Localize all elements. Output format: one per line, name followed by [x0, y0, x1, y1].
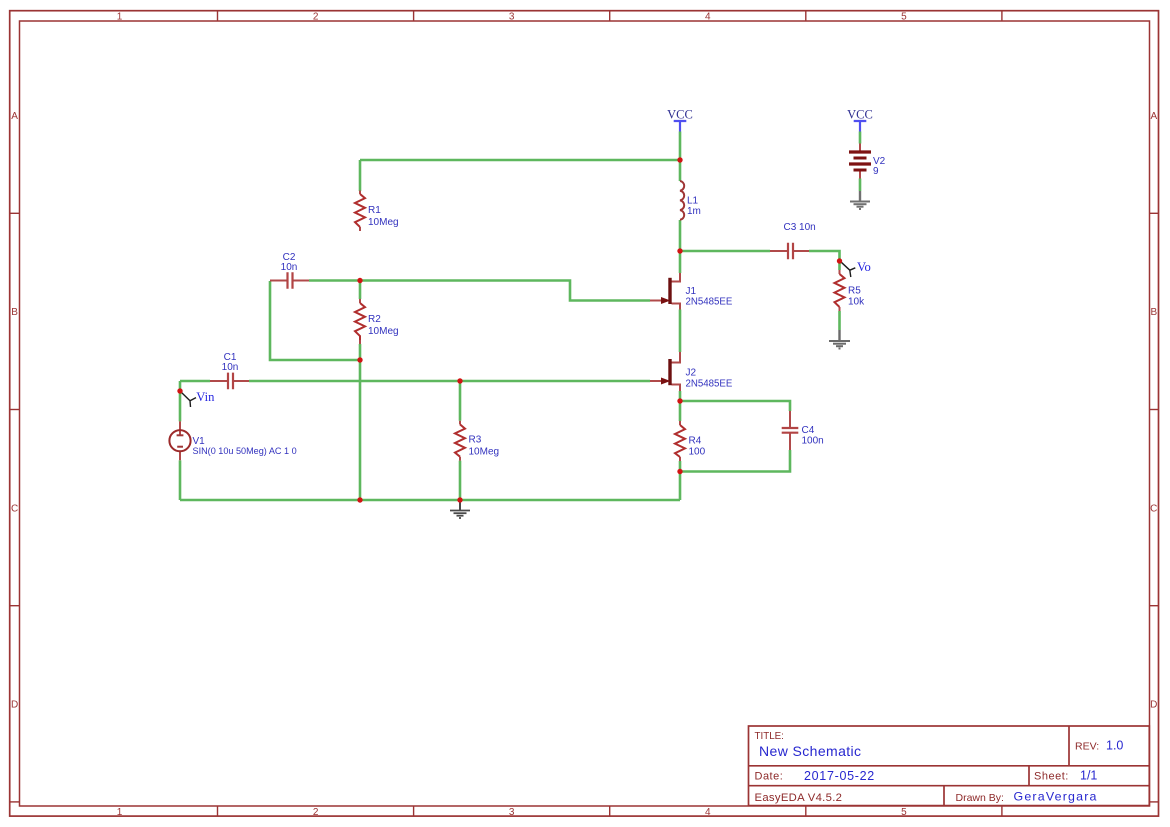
- svg-text:D: D: [11, 700, 18, 711]
- svg-text:R2: R2: [368, 314, 381, 325]
- svg-text:J2: J2: [686, 367, 697, 378]
- svg-text:10Meg: 10Meg: [368, 217, 399, 228]
- svg-text:D: D: [1150, 700, 1157, 711]
- svg-text:GeraVergara: GeraVergara: [1014, 790, 1098, 804]
- svg-text:10Meg: 10Meg: [368, 326, 399, 337]
- svg-text:1/1: 1/1: [1080, 769, 1097, 783]
- svg-text:C: C: [11, 503, 18, 514]
- svg-text:3: 3: [509, 807, 515, 818]
- svg-text:4: 4: [705, 12, 711, 23]
- svg-text:100n: 100n: [802, 436, 824, 447]
- svg-text:10n: 10n: [281, 262, 298, 273]
- svg-text:1: 1: [117, 12, 123, 23]
- svg-text:B: B: [11, 307, 18, 318]
- svg-text:R1: R1: [368, 205, 381, 216]
- svg-text:2017-05-22: 2017-05-22: [804, 769, 875, 783]
- svg-text:REV:: REV:: [1075, 740, 1099, 752]
- svg-text:TITLE:: TITLE:: [755, 731, 784, 742]
- svg-text:Vo: Vo: [857, 260, 871, 274]
- svg-text:Vin: Vin: [196, 390, 215, 404]
- svg-text:New Schematic: New Schematic: [759, 743, 861, 759]
- svg-text:EasyEDA V4.5.2: EasyEDA V4.5.2: [755, 792, 843, 804]
- svg-text:10n: 10n: [222, 362, 239, 373]
- svg-text:2N5485EE: 2N5485EE: [686, 378, 733, 389]
- svg-text:R4: R4: [689, 435, 702, 446]
- svg-text:5: 5: [901, 807, 907, 818]
- svg-text:R3: R3: [469, 434, 482, 445]
- svg-text:4: 4: [705, 807, 711, 818]
- svg-text:5: 5: [901, 12, 907, 23]
- svg-text:9: 9: [873, 166, 879, 177]
- svg-text:B: B: [1150, 307, 1157, 318]
- svg-text:100: 100: [689, 446, 706, 457]
- svg-text:C: C: [1150, 503, 1157, 514]
- svg-text:1m: 1m: [687, 206, 701, 217]
- svg-text:SIN(0 10u 50Meg) AC 1 0: SIN(0 10u 50Meg) AC 1 0: [193, 446, 297, 456]
- svg-text:1: 1: [117, 807, 123, 818]
- svg-text:1.0: 1.0: [1106, 738, 1123, 752]
- svg-text:2N5485EE: 2N5485EE: [686, 297, 733, 308]
- svg-text:3: 3: [509, 12, 515, 23]
- svg-text:2: 2: [313, 807, 319, 818]
- svg-text:2: 2: [313, 12, 319, 23]
- svg-text:J1: J1: [686, 286, 697, 297]
- svg-text:A: A: [1150, 111, 1157, 122]
- svg-text:10Meg: 10Meg: [469, 446, 500, 457]
- svg-text:C4: C4: [802, 425, 815, 436]
- svg-text:Drawn By:: Drawn By:: [956, 792, 1004, 804]
- svg-text:A: A: [11, 111, 18, 122]
- svg-text:Date:: Date:: [755, 771, 784, 783]
- svg-text:C3 10n: C3 10n: [784, 222, 816, 233]
- svg-text:L1: L1: [687, 196, 699, 207]
- svg-text:VCC: VCC: [847, 108, 873, 122]
- svg-text:R5: R5: [848, 286, 861, 297]
- svg-text:VCC: VCC: [667, 108, 693, 122]
- svg-text:Sheet:: Sheet:: [1034, 771, 1069, 783]
- svg-text:10k: 10k: [848, 297, 865, 308]
